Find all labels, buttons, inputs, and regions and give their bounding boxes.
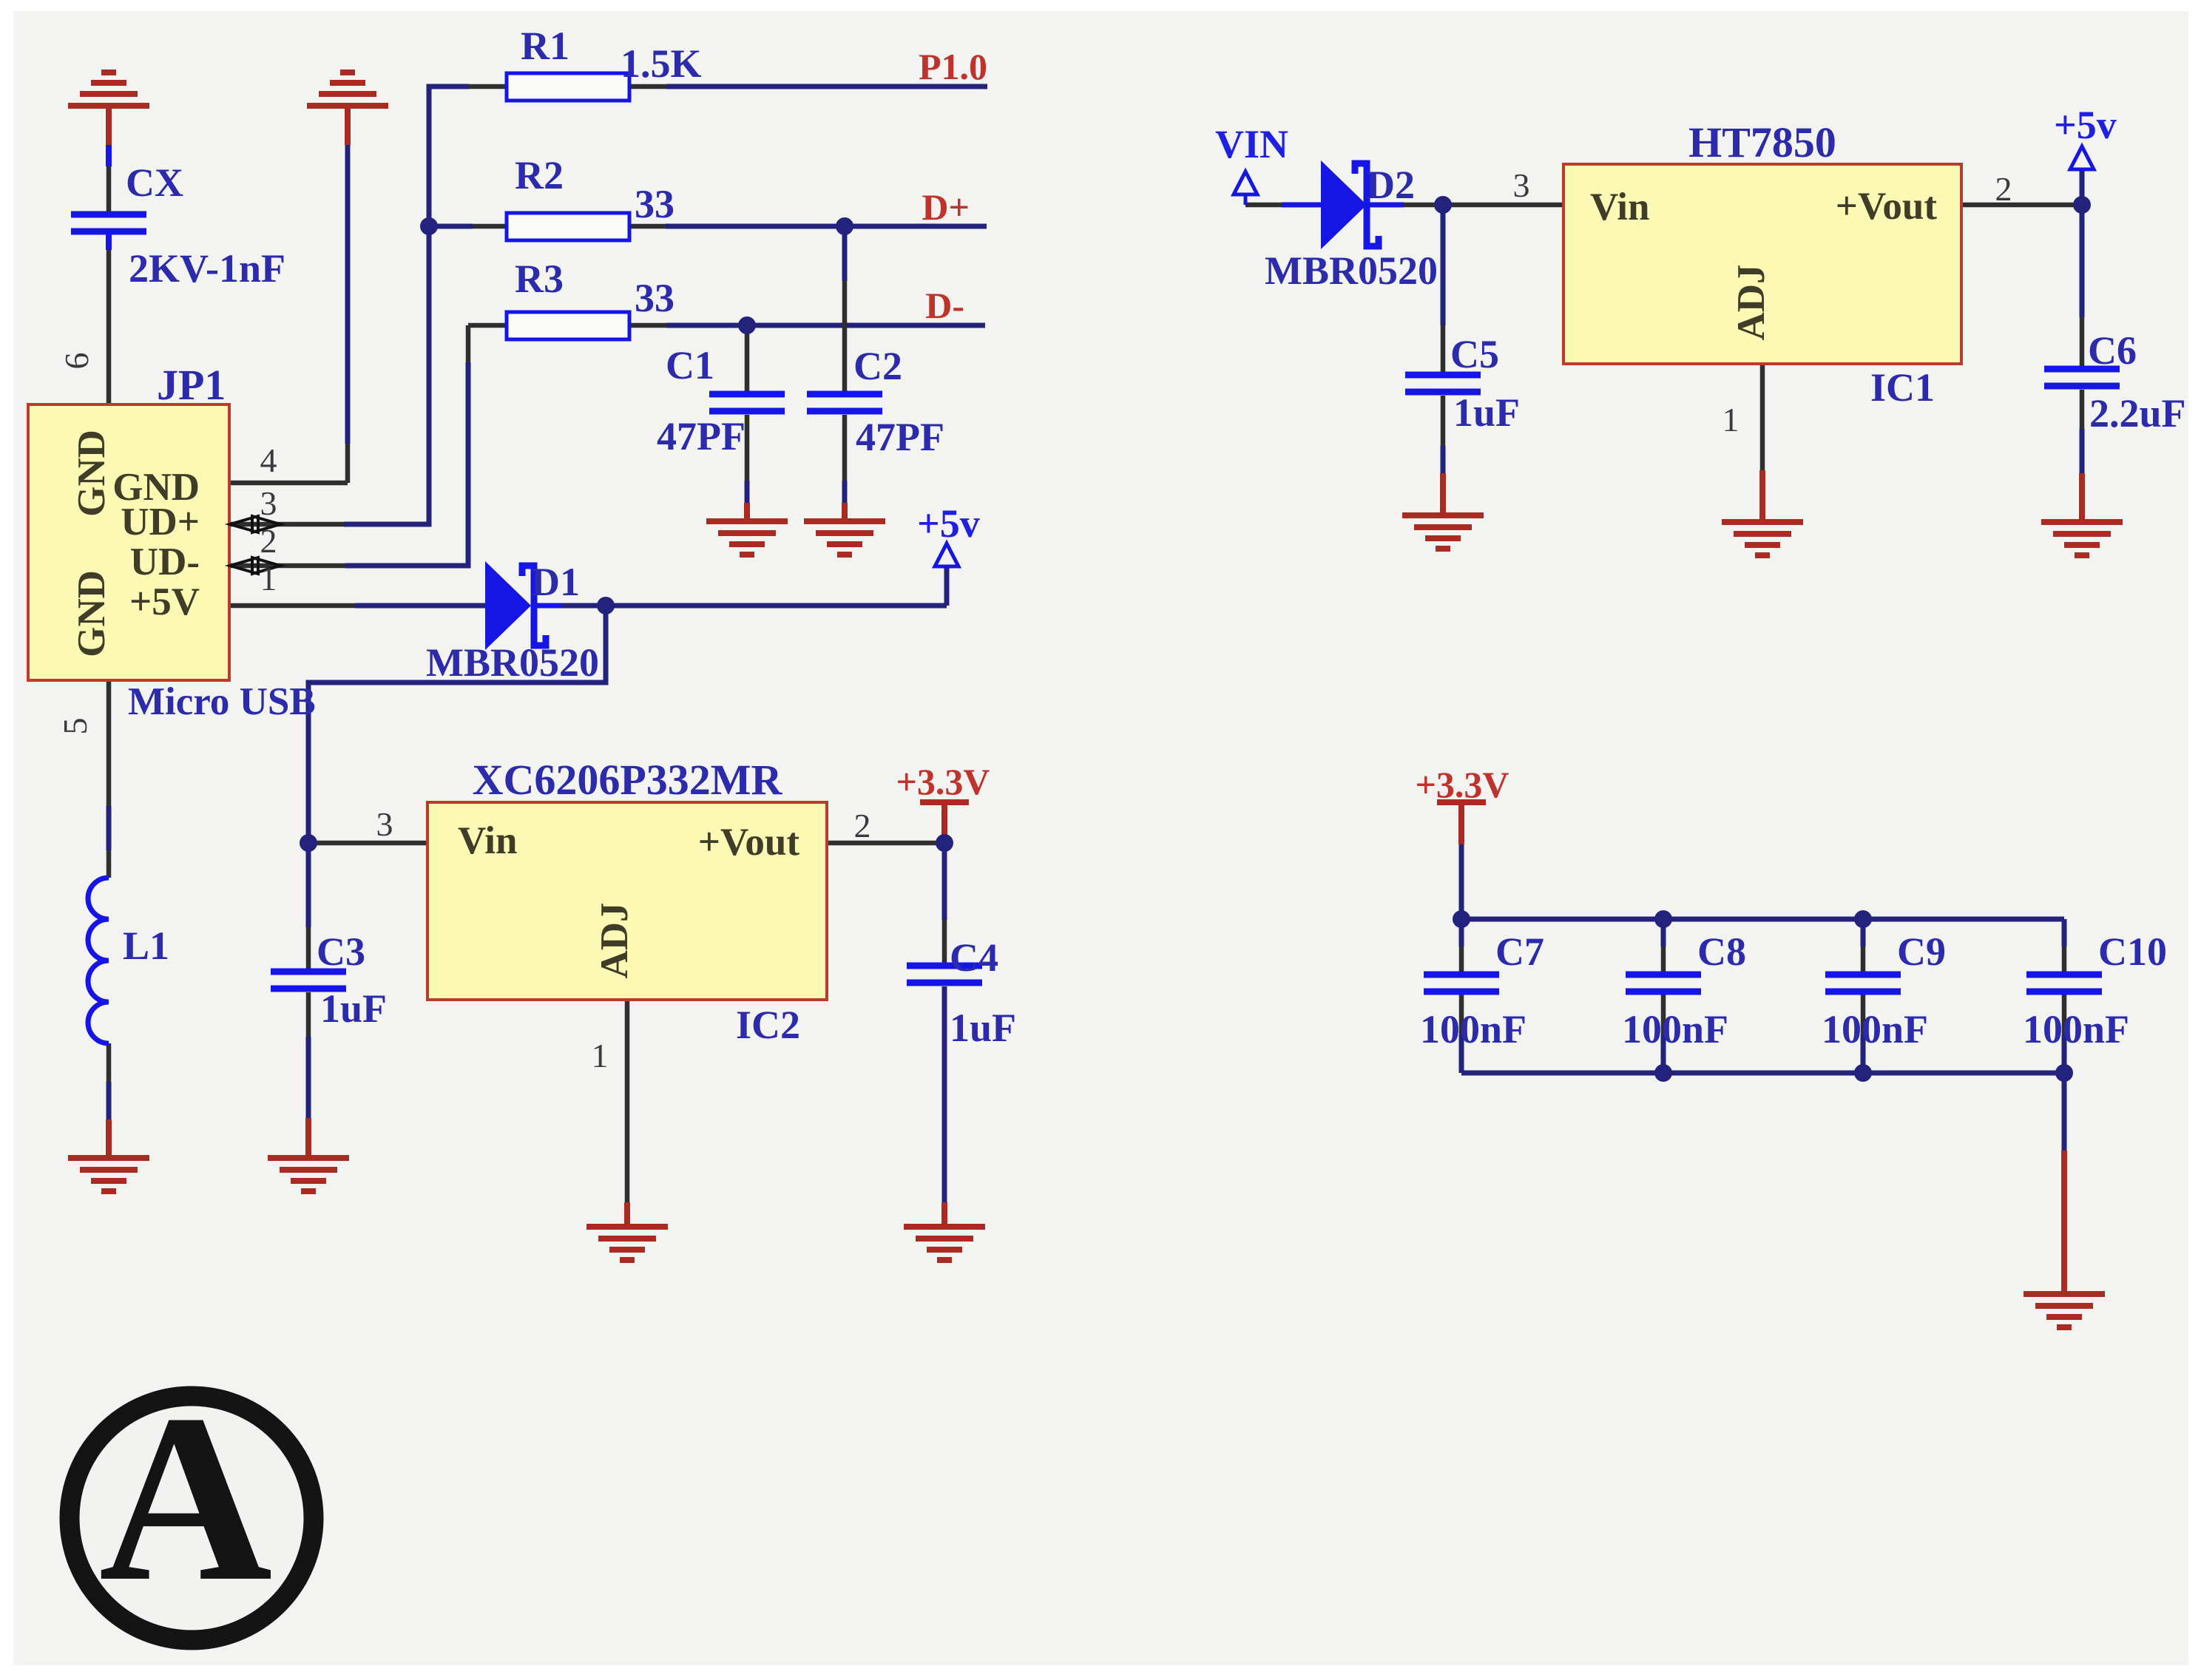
svg-text:100nF: 100nF — [2023, 1007, 2129, 1051]
svg-text:3: 3 — [376, 805, 393, 843]
svg-text:GND: GND — [70, 570, 113, 657]
svg-text:C2: C2 — [853, 344, 902, 388]
svg-text:2: 2 — [260, 522, 277, 560]
svg-text:UD-: UD- — [130, 541, 200, 583]
svg-text:6: 6 — [58, 353, 95, 370]
svg-text:IC1: IC1 — [1870, 365, 1935, 410]
svg-text:R2: R2 — [515, 153, 564, 197]
svg-text:C9: C9 — [1897, 929, 1946, 974]
svg-text:C1: C1 — [666, 343, 714, 387]
svg-text:P1.0: P1.0 — [919, 46, 987, 87]
svg-text:33: 33 — [635, 276, 674, 320]
svg-text:GND: GND — [70, 430, 113, 517]
svg-text:100nF: 100nF — [1822, 1007, 1928, 1051]
svg-text:ADJ: ADJ — [1730, 264, 1773, 340]
svg-text:+Vout: +Vout — [698, 821, 800, 864]
svg-text:Micro USB: Micro USB — [128, 680, 316, 723]
svg-text:C6: C6 — [2088, 328, 2137, 373]
svg-text:1: 1 — [1722, 401, 1739, 438]
svg-text:100nF: 100nF — [1420, 1007, 1526, 1051]
svg-text:Vin: Vin — [1590, 186, 1650, 228]
svg-text:1uF: 1uF — [1453, 390, 1520, 435]
svg-text:2: 2 — [854, 807, 871, 844]
svg-text:CX: CX — [126, 160, 183, 205]
svg-text:C3: C3 — [317, 929, 365, 974]
svg-text:+3.3V: +3.3V — [1415, 764, 1509, 805]
svg-text:2KV-1nF: 2KV-1nF — [129, 246, 285, 291]
svg-text:100nF: 100nF — [1622, 1007, 1728, 1051]
svg-text:UD+: UD+ — [121, 501, 200, 543]
svg-text:3: 3 — [260, 484, 277, 522]
svg-text:JP1: JP1 — [157, 361, 226, 409]
svg-text:XC6206P332MR: XC6206P332MR — [473, 756, 783, 804]
svg-text:1: 1 — [260, 560, 277, 597]
svg-text:47PF: 47PF — [856, 415, 944, 459]
svg-text:R3: R3 — [515, 257, 564, 301]
svg-text:C5: C5 — [1450, 332, 1499, 376]
svg-text:5: 5 — [56, 718, 94, 735]
svg-text:3: 3 — [1513, 166, 1530, 204]
svg-text:A: A — [99, 1365, 273, 1631]
svg-text:C4: C4 — [950, 935, 998, 980]
svg-text:L1: L1 — [123, 924, 169, 968]
svg-text:47PF: 47PF — [657, 414, 745, 458]
svg-text:2: 2 — [1995, 170, 2012, 208]
svg-text:VIN: VIN — [1215, 122, 1288, 166]
svg-text:D1: D1 — [531, 560, 580, 604]
svg-text:2.2uF: 2.2uF — [2089, 391, 2186, 436]
svg-text:C10: C10 — [2098, 929, 2167, 974]
svg-text:+5V: +5V — [129, 580, 200, 623]
svg-text:+5v: +5v — [917, 501, 980, 546]
svg-text:C7: C7 — [1495, 929, 1544, 974]
svg-text:ADJ: ADJ — [593, 902, 636, 978]
svg-text:IC2: IC2 — [736, 1003, 800, 1047]
svg-text:1: 1 — [592, 1037, 609, 1074]
svg-text:+5v: +5v — [2054, 103, 2117, 147]
svg-text:R1: R1 — [521, 24, 569, 68]
svg-text:MBR0520: MBR0520 — [426, 640, 599, 685]
svg-text:1uF: 1uF — [950, 1006, 1016, 1050]
svg-text:D2: D2 — [1366, 163, 1415, 207]
svg-text:1.5K: 1.5K — [621, 41, 702, 86]
svg-text:D+: D+ — [922, 186, 970, 228]
svg-text:Vin: Vin — [458, 819, 518, 862]
svg-text:33: 33 — [635, 182, 674, 226]
svg-text:+3.3V: +3.3V — [896, 761, 990, 802]
svg-text:D-: D- — [925, 285, 964, 326]
svg-text:C8: C8 — [1697, 929, 1746, 974]
svg-text:1uF: 1uF — [320, 986, 387, 1031]
svg-text:HT7850: HT7850 — [1688, 118, 1836, 166]
svg-text:+Vout: +Vout — [1836, 185, 1938, 228]
svg-text:MBR0520: MBR0520 — [1265, 248, 1438, 293]
svg-text:4: 4 — [260, 441, 277, 479]
